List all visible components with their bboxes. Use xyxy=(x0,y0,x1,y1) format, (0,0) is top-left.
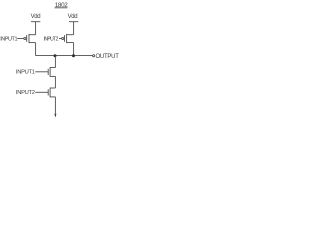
svg-text:INPUT1: INPUT1 xyxy=(16,70,35,76)
reference numeral 1802 xyxy=(55,2,68,9)
wire P2 drain to output node xyxy=(73,43,75,56)
pmos transistor P2 xyxy=(62,34,74,43)
output net wire xyxy=(36,55,93,57)
wire P1 drain to output node xyxy=(35,43,37,56)
svg-text:Vdd: Vdd xyxy=(31,14,41,20)
svg-text:INPUT1: INPUT1 xyxy=(0,36,17,42)
Vdd label right xyxy=(68,14,78,20)
svg-text:INPUT2: INPUT2 xyxy=(44,36,59,42)
OUTPUT terminal circle xyxy=(93,55,95,57)
wire INPUT1 to P1 gate xyxy=(17,38,24,40)
wire INPUT2 to P2 gate xyxy=(59,38,62,40)
underline of 1802 xyxy=(55,7,68,9)
svg-text:OUTPUT: OUTPUT xyxy=(96,54,120,60)
INPUT1 label top xyxy=(0,36,17,42)
INPUT2 label bottom xyxy=(16,90,35,96)
pmos transistor P1 xyxy=(24,34,36,43)
Vdd label left xyxy=(31,14,41,20)
junction dot output/NMOS chain xyxy=(54,54,57,57)
wire N1 source to N2 drain xyxy=(54,76,56,88)
Vdd terminal bar left xyxy=(31,21,40,23)
wire output node to N1 drain xyxy=(54,56,56,68)
wire N2 source to ground xyxy=(54,97,56,114)
junction dot output/P2 drain xyxy=(72,54,75,57)
wire Vdd-left to P1 source xyxy=(35,22,37,35)
wire Vdd-right to P2 source xyxy=(73,22,75,35)
INPUT1 label middle xyxy=(16,70,35,76)
wire INPUT1 to N1 gate xyxy=(35,71,48,73)
nmos transistor N1 xyxy=(48,67,55,77)
INPUT2 label top xyxy=(44,36,59,42)
svg-text:Vdd: Vdd xyxy=(68,14,78,20)
OUTPUT label xyxy=(96,54,120,60)
ground arrow xyxy=(54,114,56,118)
wire INPUT2 to N2 gate xyxy=(35,91,48,93)
svg-text:INPUT2: INPUT2 xyxy=(16,90,35,96)
Vdd terminal bar right xyxy=(69,21,78,23)
nmos transistor N2 xyxy=(48,88,55,98)
